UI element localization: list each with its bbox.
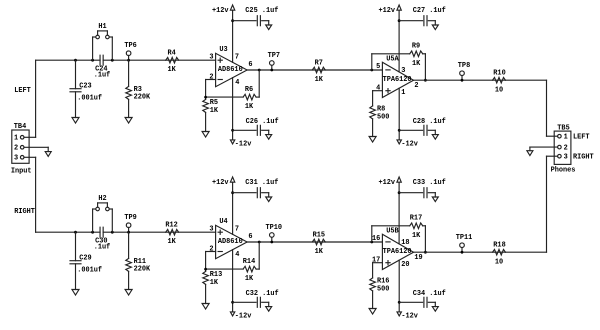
- svg-text:R4: R4: [167, 49, 175, 57]
- svg-text:TP11: TP11: [456, 234, 473, 242]
- svg-text:R12: R12: [165, 221, 177, 229]
- svg-text:1K: 1K: [210, 107, 219, 115]
- svg-text:2: 2: [209, 73, 213, 81]
- svg-text:10: 10: [495, 259, 503, 267]
- svg-text:.001uf: .001uf: [77, 267, 102, 275]
- svg-text:R14: R14: [243, 258, 255, 266]
- svg-text:TP8: TP8: [458, 62, 470, 70]
- svg-text:6: 6: [248, 233, 252, 241]
- svg-text:H2: H2: [98, 195, 106, 203]
- svg-text:2: 2: [564, 144, 568, 152]
- svg-text:1K: 1K: [412, 232, 421, 240]
- svg-text:C32 .1uf: C32 .1uf: [246, 290, 279, 298]
- svg-text:1: 1: [401, 89, 405, 97]
- svg-text:RIGHT: RIGHT: [14, 208, 35, 216]
- svg-text:1: 1: [14, 135, 18, 143]
- svg-text:TP6: TP6: [124, 42, 136, 50]
- svg-text:R15: R15: [313, 231, 325, 239]
- svg-text:7: 7: [235, 54, 239, 62]
- svg-text:1K: 1K: [167, 238, 176, 246]
- svg-text:-12v: -12v: [235, 312, 252, 320]
- svg-text:1K: 1K: [167, 66, 176, 74]
- svg-text:.1uf: .1uf: [94, 244, 111, 252]
- svg-text:3: 3: [401, 67, 405, 75]
- svg-text:5: 5: [376, 63, 380, 71]
- svg-text:3: 3: [209, 226, 213, 234]
- svg-text:-12v: -12v: [401, 140, 418, 148]
- svg-text:H1: H1: [98, 23, 106, 31]
- svg-text:1K: 1K: [245, 103, 254, 111]
- svg-text:+12v: +12v: [212, 7, 229, 15]
- svg-text:TP10: TP10: [266, 224, 283, 232]
- svg-text:C34 .1uf: C34 .1uf: [413, 290, 446, 298]
- svg-text:R8: R8: [377, 105, 385, 113]
- svg-text:TPA6120: TPA6120: [383, 248, 412, 256]
- svg-text:R7: R7: [315, 59, 323, 67]
- svg-text:TB4: TB4: [14, 123, 26, 131]
- svg-text:C27 .1uf: C27 .1uf: [413, 7, 446, 15]
- svg-text:2: 2: [14, 145, 18, 153]
- svg-text:Input: Input: [11, 168, 32, 176]
- svg-text:U3: U3: [219, 46, 227, 54]
- svg-text:R6: R6: [245, 86, 253, 94]
- svg-text:1K: 1K: [412, 60, 421, 68]
- svg-text:3: 3: [564, 153, 568, 161]
- svg-text:3: 3: [14, 155, 18, 163]
- svg-text:R18: R18: [493, 242, 505, 250]
- svg-text:500: 500: [377, 113, 389, 121]
- svg-text:C26 .1uf: C26 .1uf: [246, 118, 279, 126]
- svg-text:+12v: +12v: [379, 7, 396, 15]
- svg-text:TB5: TB5: [557, 124, 569, 132]
- svg-text:1: 1: [564, 133, 568, 141]
- svg-text:AD8610: AD8610: [218, 238, 243, 246]
- svg-text:U5B: U5B: [386, 227, 398, 235]
- svg-text:-12v: -12v: [235, 140, 252, 148]
- svg-text:U5A: U5A: [386, 55, 399, 63]
- svg-text:LEFT: LEFT: [573, 133, 590, 141]
- svg-text:LEFT: LEFT: [14, 87, 31, 95]
- svg-text:1K: 1K: [315, 76, 324, 84]
- svg-text:+12v: +12v: [212, 179, 229, 187]
- svg-text:C23: C23: [79, 83, 91, 91]
- svg-text:-12v: -12v: [401, 312, 418, 320]
- svg-text:10: 10: [495, 87, 503, 95]
- svg-text:2: 2: [414, 82, 418, 90]
- svg-text:AD8610: AD8610: [218, 66, 243, 74]
- svg-text:1K: 1K: [315, 248, 324, 256]
- svg-text:18: 18: [401, 239, 409, 247]
- svg-text:TP9: TP9: [124, 214, 136, 222]
- svg-text:7: 7: [235, 226, 239, 234]
- svg-text:1K: 1K: [210, 279, 219, 287]
- svg-text:U4: U4: [219, 218, 227, 226]
- svg-text:Phones: Phones: [551, 167, 576, 175]
- svg-text:TP7: TP7: [268, 52, 280, 60]
- svg-text:4: 4: [235, 79, 239, 87]
- svg-text:C28 .1uf: C28 .1uf: [413, 118, 446, 126]
- svg-text:.1uf: .1uf: [94, 72, 111, 80]
- svg-text:4: 4: [235, 251, 239, 259]
- svg-text:3: 3: [209, 54, 213, 62]
- svg-text:19: 19: [414, 254, 422, 262]
- svg-text:220K: 220K: [134, 265, 151, 273]
- svg-text:.001uf: .001uf: [77, 95, 102, 103]
- svg-text:TPA6120: TPA6120: [383, 76, 412, 84]
- svg-text:R9: R9: [412, 43, 420, 51]
- svg-text:20: 20: [401, 261, 409, 269]
- svg-text:RIGHT: RIGHT: [573, 153, 594, 161]
- svg-text:220K: 220K: [134, 93, 151, 101]
- svg-text:2: 2: [209, 245, 213, 253]
- svg-text:1K: 1K: [245, 275, 254, 283]
- svg-text:R16: R16: [377, 277, 389, 285]
- svg-text:500: 500: [377, 285, 389, 293]
- svg-text:C33 .1uf: C33 .1uf: [413, 179, 446, 187]
- svg-text:R10: R10: [493, 70, 505, 78]
- svg-text:R17: R17: [410, 215, 422, 223]
- svg-text:C29: C29: [79, 255, 91, 263]
- svg-text:6: 6: [248, 61, 252, 69]
- svg-text:C31 .1uf: C31 .1uf: [245, 179, 278, 187]
- svg-text:16: 16: [372, 235, 380, 243]
- svg-text:+12v: +12v: [379, 179, 396, 187]
- svg-text:C25 .1uf: C25 .1uf: [245, 7, 278, 15]
